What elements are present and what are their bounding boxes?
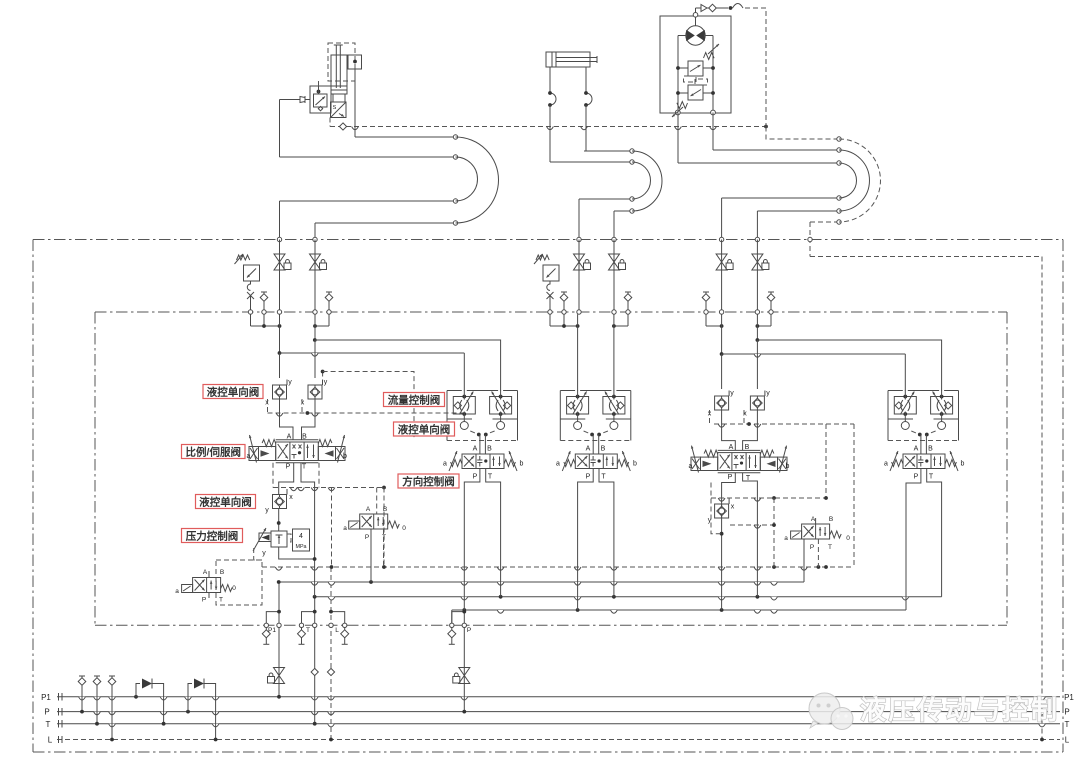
svg-text:x: x (289, 494, 293, 501)
svg-text:B: B (487, 446, 492, 453)
bus crossing hops (79, 697, 86, 700)
sub-bus bracket group23 right (627, 314, 629, 326)
pilot lines group1 checks (dashed) (267, 399, 269, 413)
svg-text:液控单向阀: 液控单向阀 (199, 495, 252, 508)
svg-text:a: a (689, 463, 693, 470)
gauge coupling to L line (109, 675, 115, 677)
svg-text:流量控制阀: 流量控制阀 (388, 393, 441, 406)
setting box 4 MPa (293, 529, 310, 551)
shutoff valve group1-A (279, 240, 281, 313)
wire DCV2 T down (486, 469, 501, 597)
shutoff valve group4-B (756, 240, 758, 313)
check valve bridge P1 to T (134, 695, 138, 699)
hose bundle 3 dashed return (810, 221, 839, 223)
directional control valve DCV5 (903, 454, 945, 469)
gauge coupling to P line (79, 675, 85, 677)
svg-text:A: A (366, 506, 371, 513)
svg-text:4: 4 (299, 533, 303, 540)
svg-text:T: T (828, 544, 832, 551)
wire group4 check outputs to valve ports A/B (722, 410, 736, 450)
svg-text:B: B (829, 516, 833, 523)
drain collector (dashed) (262, 566, 854, 568)
svg-text:b: b (633, 461, 637, 468)
hose bundle 3 line E (757, 210, 839, 212)
svg-text:T: T (601, 474, 606, 481)
svg-text:P: P (586, 474, 591, 481)
motor circuit enclosure box (660, 16, 731, 113)
drain manifold dashed line group1 (273, 487, 384, 489)
hose bundle 1 U-turn arcs (456, 137, 499, 223)
hose bundle 2 line B (550, 161, 632, 163)
hose bundle 2 line C (579, 198, 632, 200)
dashed enclosure of cylinder 1 (328, 43, 355, 81)
proportional/servo valve PV4 (718, 453, 761, 471)
svg-text:P1: P1 (1064, 693, 1074, 702)
bus line L (drain, dashed) (57, 739, 1060, 741)
shutoff valve group1-B (314, 240, 316, 313)
P1 riser with shutoff valve (278, 582, 280, 697)
shutoff valve group23-B (613, 240, 615, 313)
svg-text:0: 0 (846, 535, 850, 542)
svg-text:T: T (219, 597, 223, 604)
P coupling at boundary (451, 610, 453, 623)
bus line T (57, 723, 1060, 725)
right-side dashed pilot drain line to L (810, 257, 1042, 740)
pilot dashed to flow control label (322, 372, 324, 381)
wire group3 block feeds (577, 314, 579, 390)
hose bundle 2 line A (584, 150, 632, 152)
label 压力控制阀 (182, 529, 243, 543)
svg-text:P: P (202, 597, 206, 604)
svg-text:B: B (302, 434, 307, 441)
svg-text:y: y (324, 379, 328, 386)
hose bundle 1 line D (315, 222, 456, 224)
svg-text:液压传动与控制: 液压传动与控制 (860, 695, 1060, 725)
svg-text:P1: P1 (41, 693, 51, 702)
pilot operated check valve CV1c (278, 488, 280, 495)
hose bundle 3 line C (678, 162, 839, 164)
svg-text:y: y (730, 390, 734, 397)
svg-text:L: L (1065, 736, 1070, 745)
wire PV4 T port down (743, 473, 758, 597)
wire DCV5 P down (906, 469, 921, 611)
SV3 connections (803, 539, 805, 582)
P1 coupling at boundary (264, 623, 268, 627)
pilot operated check valve CV4b (756, 340, 758, 389)
sub-bus bracket group4 right (770, 314, 772, 326)
crossover relief valve RV-b (688, 85, 703, 100)
swivel joint cylinder2 right (585, 67, 587, 93)
svg-text:y: y (265, 507, 269, 514)
label 比例/伺服阀 (182, 445, 246, 459)
outer machine boundary (dash-dot box) (33, 239, 1063, 241)
test coupling group1-a (261, 291, 267, 293)
P collector line (452, 609, 906, 611)
shutoff valve group23-A (578, 240, 580, 313)
pipe plug connection to pilot block (280, 99, 301, 101)
pilot operated check valve CV4c (715, 504, 729, 518)
shutoff valve group4-A (721, 240, 723, 313)
svg-text:A: A (203, 569, 208, 576)
hose bundle 3 dashed drain line (766, 127, 839, 140)
wire cylinder2 ports to bundle 2 (549, 127, 551, 163)
svg-text:P: P (467, 627, 471, 634)
svg-text:0: 0 (232, 585, 236, 592)
watermark logo (809, 693, 840, 724)
svg-text:T: T (46, 720, 51, 729)
P1 collector line (279, 581, 804, 583)
relief valve at boundary group1 (244, 265, 260, 281)
pilot drains PV1 (dashed) (272, 463, 274, 488)
svg-text:比例/伺服阀: 比例/伺服阀 (186, 445, 241, 458)
svg-text:b: b (961, 461, 965, 468)
SV2 pilot lines (376, 488, 378, 515)
cylinder 2 (horizontal) (546, 52, 590, 67)
wire DCV3 P down (578, 469, 594, 611)
T coupling at boundary (299, 623, 303, 627)
cylinder 1 port block (348, 55, 362, 69)
solenoid valve SV2 (360, 514, 388, 529)
P riser with shutoff valve (463, 610, 465, 712)
svg-text:x: x (301, 400, 305, 407)
flow control block FB2 (446, 391, 448, 441)
test coupling group23-a (561, 291, 567, 293)
feed line to group2 B (313, 338, 317, 342)
svg-text:y: y (288, 379, 292, 386)
svg-text:T: T (382, 534, 386, 541)
svg-text:P: P (365, 534, 369, 541)
svg-text:a: a (556, 461, 560, 468)
wire bundle1 to boundary risers (279, 201, 281, 240)
T riser with coupling diamond (314, 597, 316, 724)
pilot pressure reducing valve (压力控制阀) PRV1 (271, 531, 287, 547)
svg-text:液控单向阀: 液控单向阀 (398, 423, 451, 436)
hose bundle 2 line D (614, 210, 632, 212)
svg-text:y: y (766, 390, 770, 397)
svg-text:A: A (586, 446, 591, 453)
motor inner loop (677, 36, 679, 113)
svg-text:a: a (343, 525, 347, 532)
swivel joint cylinder2 left (549, 67, 551, 93)
svg-text:a: a (784, 535, 788, 542)
hose bundle 2 U-turn arcs (632, 151, 662, 211)
svg-text:T: T (302, 464, 307, 471)
wire cylinder1 left port down (279, 100, 281, 158)
label 液控单向阀 upper-left (203, 385, 263, 399)
svg-text:T: T (488, 474, 493, 481)
group4 dashed pilot network (711, 483, 722, 534)
svg-text:b: b (786, 463, 790, 470)
pilot supply dashed line across top (330, 126, 766, 128)
hose bundle 3 line D (722, 197, 839, 199)
feed line to group5 A (720, 352, 724, 356)
relief valve at boundary group23 (543, 265, 559, 281)
svg-text:A: A (729, 444, 734, 451)
svg-text:b: b (343, 453, 347, 460)
wire PV1 T port down (301, 463, 315, 597)
svg-text:MPa: MPa (295, 544, 306, 550)
sub-bus bracket group1 right (328, 314, 330, 326)
sub-bus bracket group4 left (705, 314, 707, 326)
inner valve-block boundary (dash-dot box) (95, 311, 1007, 313)
svg-text:液控单向阀: 液控单向阀 (207, 385, 260, 398)
bus line P1 (57, 696, 1060, 698)
svg-text:a: a (884, 461, 888, 468)
sub-bus bracket group1 left (250, 314, 252, 326)
wire DCV3 T down (599, 469, 614, 597)
solenoid valve SV1 (193, 578, 221, 593)
test coupling group23-b (625, 291, 631, 293)
wire motor ports down to bundle 3 (677, 113, 679, 164)
directional control valve DCV3 (575, 454, 617, 469)
svg-text:A: A (811, 516, 816, 523)
svg-text:S: S (333, 105, 337, 111)
svg-text:P1: P1 (268, 627, 276, 634)
label 液控单向阀 mid-right (394, 422, 455, 436)
svg-text:B: B (220, 569, 224, 576)
test coupling group1-b (326, 291, 332, 293)
svg-text:A: A (914, 446, 919, 453)
pilot lines group4 checks (dashed) (709, 410, 711, 424)
label 液控单向阀 lower-left (196, 495, 256, 509)
wire cylinder1 right port down (354, 69, 356, 137)
dashed enclosure solenoid valve SV1 (216, 560, 262, 605)
svg-text:B: B (383, 506, 387, 513)
pilot dashed from PRV1 to solenoid valve SV1 (254, 548, 262, 560)
svg-text:T: T (1065, 720, 1070, 729)
hose bundle 1 line A (355, 136, 456, 138)
svg-text:y: y (262, 550, 266, 557)
wire FB2 to DCV2 (479, 435, 481, 455)
svg-text:P: P (44, 708, 49, 717)
pilot operated check valve CV1a (279, 353, 281, 378)
svg-text:方向控制阀: 方向控制阀 (402, 475, 455, 488)
wire DCV2 P down (464, 469, 480, 611)
directional control valve DCV2 (462, 454, 504, 469)
cylinder 1 (vertical cylinder with position feedback) (331, 55, 347, 94)
cylinder 1 pilot valve block (310, 86, 331, 113)
svg-text:L: L (48, 736, 53, 745)
svg-text:P: P (810, 544, 814, 551)
svg-text:A: A (473, 446, 478, 453)
wire FB5 to DCV5 (920, 435, 922, 455)
hose bundle 1 line C (280, 200, 456, 202)
solenoid valve SV3 (802, 524, 830, 539)
svg-text:0: 0 (402, 525, 406, 532)
pilot operated check valve CV1b (314, 340, 316, 378)
svg-text:P: P (286, 464, 291, 471)
T collector line (315, 596, 942, 598)
wire PRV1 drain to T column (279, 547, 315, 559)
wire bundle3 to boundary risers (721, 198, 723, 240)
wire bundle2 to boundary risers (578, 199, 580, 240)
wire PV1 P port down (279, 463, 294, 488)
crossover relief valve RV-a (688, 61, 703, 76)
hose bundle 1 line B (280, 156, 456, 158)
svg-text:B: B (745, 444, 750, 451)
svg-text:b: b (520, 461, 524, 468)
svg-text:x: x (731, 504, 735, 511)
gauge coupling to T line (94, 675, 100, 677)
svg-text:B: B (928, 446, 933, 453)
hydraulic motor M1 (686, 26, 705, 45)
svg-text:L: L (335, 627, 339, 634)
svg-text:T: T (929, 474, 934, 481)
test coupling group4-b (768, 291, 774, 293)
servo valve S on cylinder 1 (331, 102, 347, 118)
label 方向控制阀 (398, 474, 459, 488)
hose bundle 3 U-turn arcs (839, 139, 880, 222)
label 流量控制阀 (384, 393, 445, 407)
motor case drain line with plug and coupling (693, 13, 698, 18)
L coupling at boundary (343, 623, 347, 627)
pilot operated check valve CV4a (721, 354, 723, 389)
feed line to group5 B (756, 338, 760, 342)
dashed drain through boundary (809, 222, 811, 257)
svg-text:a: a (443, 461, 447, 468)
test coupling group4-a (703, 291, 709, 293)
wire FB3 to DCV3 (592, 435, 594, 455)
svg-text:P: P (914, 474, 919, 481)
check valve bridge P to L (186, 710, 190, 714)
sub-bus bracket group23 left (549, 314, 551, 326)
svg-text:A: A (287, 434, 292, 441)
svg-text:P: P (1064, 708, 1069, 717)
flow control block FB5 (887, 391, 889, 441)
svg-text:a: a (247, 453, 251, 460)
feed line to group2 A (278, 351, 282, 355)
wire DCV5 T down (927, 469, 942, 597)
svg-text:B: B (601, 446, 606, 453)
hose bundle 3 line B (713, 149, 839, 151)
L riser (dashed) (330, 567, 332, 740)
svg-text:压力控制阀: 压力控制阀 (186, 529, 239, 542)
bus line P (57, 711, 1060, 713)
svg-text:a: a (175, 588, 179, 595)
svg-text:T: T (306, 627, 310, 634)
wire PV4 P port down (722, 473, 736, 610)
wire group1 check outputs to valve ports A/B (280, 399, 294, 440)
proportional/servo valve PV1 (276, 442, 319, 461)
svg-text:P: P (728, 474, 733, 481)
flow control block FB3 (559, 391, 561, 441)
svg-text:P: P (473, 474, 478, 481)
